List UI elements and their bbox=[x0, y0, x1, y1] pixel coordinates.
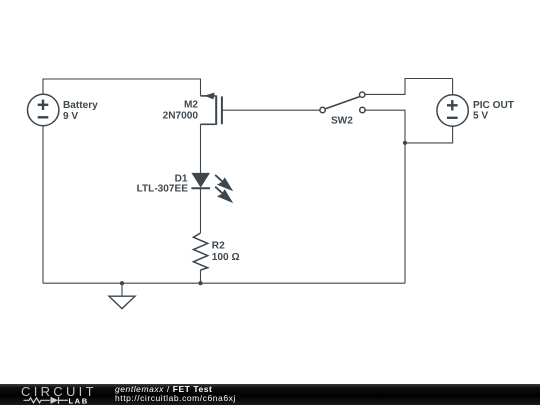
transistor M2 drain arrow bbox=[204, 93, 214, 100]
wire R2 bottom to rail bbox=[200, 270, 202, 283]
svg-text:9 V: 9 V bbox=[63, 111, 78, 122]
wire LED cathode down to R2 bbox=[200, 188, 202, 233]
LED D1 cathode bar bbox=[191, 187, 210, 189]
PIC OUT minus sign bbox=[447, 117, 458, 119]
wire bottom rail bbox=[43, 282, 405, 284]
battery V1 circle bbox=[28, 94, 59, 125]
switch SW2 common terminal bbox=[320, 107, 325, 112]
wire left rail battery bottom to ground rail bbox=[42, 126, 44, 283]
svg-text:100 Ω: 100 Ω bbox=[212, 252, 240, 263]
svg-text:5 V: 5 V bbox=[473, 111, 488, 122]
LED D1 triangle bbox=[191, 173, 210, 188]
footer credit text bbox=[115, 385, 236, 404]
wire PIC OUT top lead bbox=[452, 79, 454, 95]
LED D1 emission arrow 1 bbox=[215, 175, 231, 189]
transistor M2 drain lead bbox=[201, 95, 216, 97]
wire switch top terminal to PIC loop bbox=[365, 79, 452, 95]
svg-text:M2: M2 bbox=[184, 100, 198, 111]
svg-text:LAB: LAB bbox=[69, 397, 89, 405]
wire PIC OUT bottom lead bbox=[405, 126, 453, 143]
battery minus sign bbox=[38, 116, 49, 118]
CircuitLab logo bbox=[20, 384, 115, 405]
junction node ground bbox=[120, 281, 124, 285]
junction node R2 bottom bbox=[198, 281, 202, 285]
ground stub bbox=[121, 283, 123, 296]
wire M2 source to LED anode bbox=[200, 124, 202, 173]
battery plus sign bbox=[38, 100, 49, 118]
svg-text:2N7000: 2N7000 bbox=[163, 111, 199, 122]
svg-text:LTL-307EE: LTL-307EE bbox=[137, 183, 189, 194]
svg-text:SW2: SW2 bbox=[331, 115, 353, 126]
svg-text:Battery: Battery bbox=[63, 100, 98, 111]
wire gate to switch bbox=[222, 109, 320, 111]
footer bar bbox=[0, 384, 540, 405]
svg-text:R2: R2 bbox=[212, 241, 225, 252]
ground triangle bbox=[109, 296, 135, 308]
svg-text:PIC OUT: PIC OUT bbox=[473, 100, 515, 111]
LED D1 emission arrow 2 bbox=[215, 187, 231, 201]
switch SW2 bottom terminal bbox=[360, 107, 365, 112]
junction node right rail / PIC OUT minus bbox=[403, 141, 407, 145]
PIC OUT plus sign bbox=[447, 100, 458, 118]
wire top rail battery to M2 drain bbox=[43, 79, 201, 96]
transistor M2 channel bar bbox=[215, 95, 217, 125]
switch SW2 lever bbox=[326, 97, 360, 109]
source PIC OUT circle bbox=[437, 95, 468, 126]
wire switch bottom terminal to right rail bbox=[365, 110, 405, 283]
switch SW2 top terminal bbox=[360, 92, 365, 97]
logo resistor zigzag and diode bbox=[24, 397, 69, 404]
transistor M2 gate bar bbox=[221, 96, 223, 124]
transistor M2 source lead bbox=[201, 123, 216, 125]
resistor R2 zigzag bbox=[193, 233, 207, 270]
